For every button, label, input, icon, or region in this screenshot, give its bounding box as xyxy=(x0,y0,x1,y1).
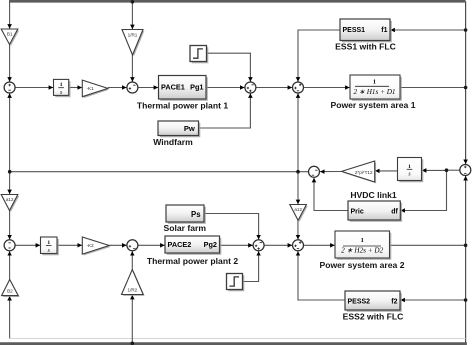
svg-text:1/R2: 1/R2 xyxy=(128,287,138,292)
junction dot bottom line at 1/R2 xyxy=(131,342,135,345)
sum junction s9 tie-line xyxy=(309,166,320,177)
svg-text:PESS2: PESS2 xyxy=(348,298,371,305)
wire gain 2piT12 to sum s9 xyxy=(320,171,342,173)
sum junction s5 xyxy=(4,240,15,251)
svg-text:a12: a12 xyxy=(6,197,14,202)
wire Pric output to sum s9 bottom xyxy=(314,178,348,211)
wire sum s10 output to junction xyxy=(447,169,460,171)
wire sum s8 to power system area 2 xyxy=(304,244,335,246)
wire sum s4 to power system area 1 xyxy=(304,87,350,89)
svg-text:df: df xyxy=(391,208,398,215)
sum junction s3 xyxy=(245,82,256,93)
svg-text:1: 1 xyxy=(373,79,376,86)
wire gain -K2 to sum s6 xyxy=(109,244,126,246)
wire junction down to Pric input xyxy=(401,170,447,210)
svg-text:Pric: Pric xyxy=(351,208,364,215)
svg-text:ESS2 with FLC: ESS2 with FLC xyxy=(343,312,404,322)
HVDC integrator block 1/s xyxy=(398,158,424,183)
junction dot tie line at left column xyxy=(8,170,12,174)
block windfarm Pw xyxy=(158,121,200,137)
wire PESS1 output to sum s4 top xyxy=(298,30,340,82)
svg-text:2 ∗ H1s + D1: 2 ∗ H1s + D1 xyxy=(353,88,395,96)
wire thick bottom frequency feedback f2 xyxy=(0,342,467,345)
block power system area 1 xyxy=(350,75,402,101)
wire gain B2 to sum s5 bottom xyxy=(9,251,11,279)
wire sum s1 to integrator 1 xyxy=(15,87,53,89)
junction dot right column area1 output xyxy=(464,86,468,90)
svg-text:f1: f1 xyxy=(381,27,387,34)
block PACE1 Pg1 thermal power plant 1 xyxy=(159,76,208,101)
svg-text:PACE2: PACE2 xyxy=(168,240,192,249)
block Pric df HVDC xyxy=(348,201,402,222)
wire f2 tap to PESS2 input xyxy=(400,299,465,301)
wire tie junction up to sum s4 bottom xyxy=(297,93,299,171)
junction dot right column area2 output xyxy=(464,244,468,248)
wire step2 to sum s7 bottom xyxy=(243,251,259,281)
wire gain a12 right to sum s8 top xyxy=(297,220,299,239)
wire gain a12 left to sum s5 top xyxy=(9,211,11,240)
wire top line to gain 1/R1 xyxy=(131,2,133,29)
svg-text:Thermal power plant 2: Thermal power plant 2 xyxy=(147,256,238,266)
wire top frequency feedback f1 xyxy=(9,0,466,3)
step block 2 xyxy=(227,274,245,292)
svg-text:HVDC link1: HVDC link1 xyxy=(350,190,397,200)
wire thin f2 feedback line xyxy=(10,338,466,340)
wire gain 1/R2 to sum s6 bottom xyxy=(131,251,133,269)
svg-text:Thermal power plant 1: Thermal power plant 1 xyxy=(137,100,228,110)
gain 2piT12 xyxy=(342,161,377,183)
block PACE2 Pg2 thermal power plant 2 xyxy=(165,236,221,255)
wire bottom f2 line up to gain B2 xyxy=(9,296,11,339)
sum junction s2 xyxy=(127,82,138,93)
svg-text:-K2: -K2 xyxy=(87,243,95,248)
svg-text:Power system area 1: Power system area 1 xyxy=(330,100,415,110)
gain a12 right xyxy=(290,205,308,222)
wire tie junction up to sum s1 bottom xyxy=(9,93,11,171)
wire f1 tap to PESS1 input xyxy=(390,29,465,31)
wire sum s7 to sum s8 xyxy=(264,244,292,246)
wire sum s6 to PACE2 xyxy=(138,244,165,246)
svg-text:1: 1 xyxy=(361,237,364,244)
svg-text:Power system area 2: Power system area 2 xyxy=(319,260,404,270)
wire thick bottom line up to gain 1/R2 xyxy=(131,295,133,343)
svg-text:ESS1 with FLC: ESS1 with FLC xyxy=(335,41,396,51)
junction dot right column PESS2 tap xyxy=(464,298,468,302)
gain 1/R2 xyxy=(122,270,145,296)
svg-text:f2: f2 xyxy=(391,298,397,305)
wire power system area 1 to right column xyxy=(400,87,466,89)
wire PESS2 output to sum s8 bottom xyxy=(298,251,345,300)
wire sum s3 to sum s4 xyxy=(256,87,292,89)
block power system area 2 xyxy=(335,231,391,260)
svg-text:Pg2: Pg2 xyxy=(204,240,217,249)
wire right column lower segment to sum s10 xyxy=(465,176,467,345)
wire integrator 1 to gain -K1 xyxy=(69,87,82,89)
sum junction s7 xyxy=(253,240,264,251)
wire gain -K1 to sum s2 xyxy=(108,87,127,89)
sum junction s10 frequency difference xyxy=(460,165,471,176)
wire junction to HVDC integrator xyxy=(422,169,447,171)
svg-text:2 ∗ H2s + D2: 2 ∗ H2s + D2 xyxy=(341,246,383,254)
svg-text:Windfarm: Windfarm xyxy=(153,137,193,147)
svg-text:-K1: -K1 xyxy=(87,86,95,91)
wire left column down to gain B1 xyxy=(9,2,11,29)
wire PACE1 to sum s3 xyxy=(206,87,245,89)
wire integrator 2 to gain -K2 xyxy=(57,244,82,246)
svg-text:Solar farm: Solar farm xyxy=(164,223,207,233)
wire tie junction down to gain a12 right xyxy=(297,172,299,204)
wire power system area 2 to right column xyxy=(390,244,466,246)
svg-text:Ps: Ps xyxy=(191,210,201,219)
wire sum s2 to PACE1 xyxy=(138,87,158,89)
wire windfarm Pw to sum s3 bottom xyxy=(199,93,251,128)
gain B2 xyxy=(2,280,20,298)
wire tie-line sum s9 output across xyxy=(10,171,309,173)
wire tie junction down to gain a12 left xyxy=(9,172,11,194)
wire step1 to sum s3 top xyxy=(207,53,251,81)
step block 1 xyxy=(190,46,208,64)
svg-text:2*pi*T12: 2*pi*T12 xyxy=(355,170,373,175)
gain B1 xyxy=(1,29,19,46)
integrator block 1/s area2 xyxy=(41,237,59,255)
svg-text:Pg1: Pg1 xyxy=(190,83,203,92)
wire HVDC integrator to gain 2piT12 xyxy=(375,170,397,172)
wire gain B1 to sum s1 xyxy=(9,45,11,82)
gain -K1 xyxy=(82,80,109,98)
wire PACE2 to sum s7 xyxy=(220,244,253,246)
sum junction s6 xyxy=(127,240,138,251)
svg-text:a12: a12 xyxy=(294,207,302,212)
junction dot HVDC feed xyxy=(445,168,449,172)
junction dot top line at 1/R1 xyxy=(131,0,135,4)
gain 1/R1 xyxy=(122,30,144,57)
svg-text:B2: B2 xyxy=(7,289,13,294)
junction dot tie line at x298 xyxy=(296,170,300,174)
sum junction s4 xyxy=(293,82,304,93)
block solar farm Ps xyxy=(166,205,206,224)
junction dot right column PESS1 tap xyxy=(464,28,468,32)
gain -K2 xyxy=(82,237,110,256)
sum junction s1 xyxy=(4,82,15,93)
block PESS2 f2 xyxy=(345,291,402,312)
svg-text:Pw: Pw xyxy=(184,124,195,133)
svg-text:PESS1: PESS1 xyxy=(343,27,366,34)
svg-text:PACE1: PACE1 xyxy=(161,83,185,92)
wire right column upper segment to sum s10 xyxy=(465,2,467,165)
wire sum s5 to integrator 2 xyxy=(15,244,40,246)
wire gain 1/R1 to sum s2 xyxy=(131,55,133,82)
svg-text:B1: B1 xyxy=(7,32,13,37)
block PESS1 f1 xyxy=(340,19,392,42)
gain a12 left xyxy=(1,195,19,212)
sum junction s8 xyxy=(293,240,304,251)
svg-text:1/R1: 1/R1 xyxy=(128,33,138,38)
integrator block 1/s area1 xyxy=(54,79,71,97)
wire solar Ps to sum s7 top xyxy=(204,214,259,240)
